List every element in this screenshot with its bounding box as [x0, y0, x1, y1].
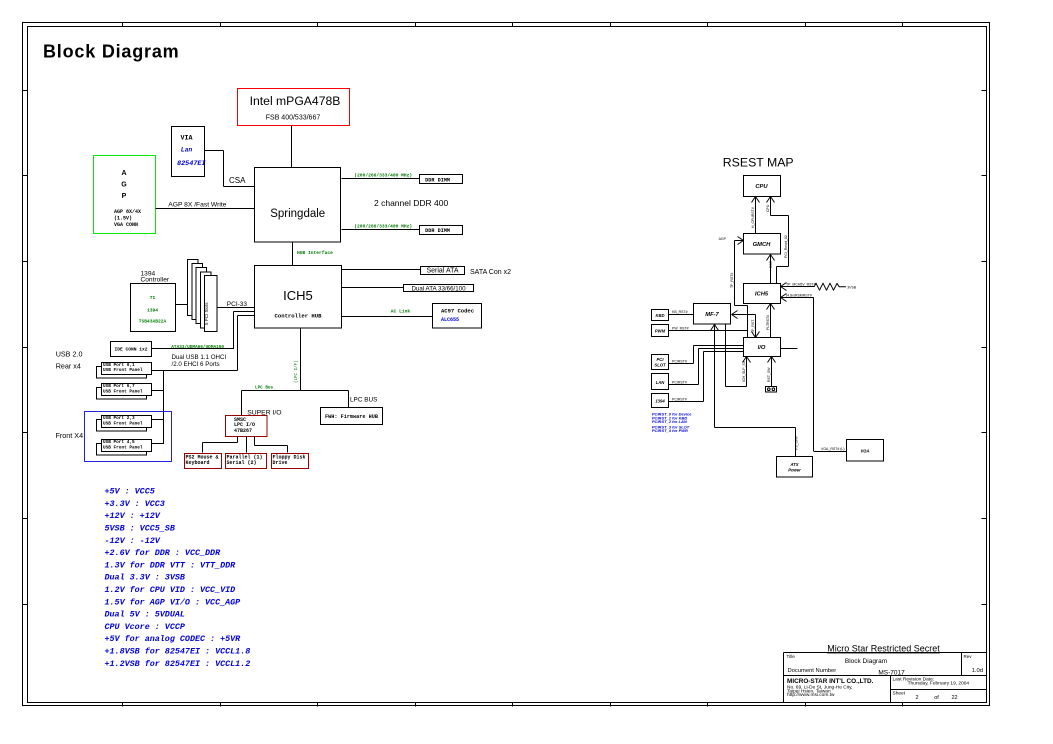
svg-text:Document Number: Document Number	[788, 668, 837, 674]
svg-text:RST: RST	[769, 260, 773, 268]
svg-text:PW_RST#: PW_RST#	[672, 327, 689, 331]
svg-text:(200/266/333/400 MHz): (200/266/333/400 MHz)	[354, 173, 412, 179]
svg-text:Rear x4: Rear x4	[56, 361, 81, 370]
svg-text:ATX: ATX	[789, 462, 798, 467]
svg-text:CPU: CPU	[766, 204, 770, 212]
svg-text:PCI-33: PCI-33	[227, 301, 248, 308]
svg-text:5VSB : VCC5_SB: 5VSB : VCC5_SB	[105, 524, 175, 534]
svg-text:22: 22	[951, 695, 957, 701]
svg-text:Sheet: Sheet	[893, 691, 906, 697]
svg-text:Intel mPGA478B: Intel mPGA478B	[250, 94, 341, 108]
svg-text:FWH: Firmware HUB: FWH: Firmware HUB	[325, 414, 378, 420]
svg-text:+1.2VSB for 82547EI : VCCL1.2: +1.2VSB for 82547EI : VCCL1.2	[105, 659, 251, 669]
svg-text:CSA: CSA	[229, 176, 246, 185]
svg-text:Dual 3.3V : 3VSB: Dual 3.3V : 3VSB	[105, 573, 185, 583]
svg-text:(200/266/333/400 MHz): (200/266/333/400 MHz)	[354, 223, 412, 229]
svg-text:Serial ATA: Serial ATA	[426, 268, 458, 275]
svg-text:of: of	[934, 695, 939, 701]
svg-text:SUPER I/O: SUPER I/O	[247, 409, 281, 416]
svg-text:SLOT: SLOT	[654, 363, 666, 368]
svg-text:Thursday, February 19, 2004: Thursday, February 19, 2004	[908, 680, 970, 686]
svg-text:TP_RST#: TP_RST#	[730, 273, 734, 288]
svg-text:PCI_Reset_82: PCI_Reset_82	[784, 235, 788, 258]
svg-text:PCI: PCI	[657, 357, 665, 362]
svg-text:Controller HUB: Controller HUB	[275, 312, 323, 319]
svg-text:+3.3V : VCC3: +3.3V : VCC3	[105, 499, 165, 509]
svg-text:PCIRST#: PCIRST#	[672, 397, 687, 401]
svg-text:VGA_RST# (L): VGA_RST# (L)	[821, 447, 845, 451]
svg-text:PCIRST#: PCIRST#	[672, 381, 687, 385]
svg-text:2 channel DDR 400: 2 channel DDR 400	[374, 198, 448, 208]
svg-text:KB_RST#: KB_RST#	[672, 310, 688, 314]
svg-text:1.0d: 1.0d	[972, 668, 983, 674]
svg-text:PCIRST_4 for PWR: PCIRST_4 for PWR	[652, 428, 688, 433]
svg-text:IDE CONN 1x2: IDE CONN 1x2	[114, 347, 147, 353]
svg-text:PWM: PWM	[655, 329, 666, 334]
svg-text:(4.8v)RSMRST#: (4.8v)RSMRST#	[786, 294, 812, 298]
svg-text:Block Diagram: Block Diagram	[43, 42, 179, 62]
svg-text:1394: 1394	[147, 308, 158, 314]
svg-text:TP_MCH5V_RST#: TP_MCH5V_RST#	[786, 283, 816, 287]
svg-text:Keyboard: Keyboard	[186, 460, 210, 466]
svg-text:TP_RST: TP_RST	[751, 319, 755, 333]
svg-text:DDR DIMM: DDR DIMM	[425, 178, 450, 184]
svg-text:VGA: VGA	[860, 449, 869, 454]
svg-text:(1.5V): (1.5V)	[114, 216, 132, 222]
svg-text:USB 2.0: USB 2.0	[56, 350, 83, 359]
svg-text:ALC655: ALC655	[441, 317, 459, 323]
svg-text:Block Diagram: Block Diagram	[845, 658, 887, 665]
svg-text:RSEST MAP: RSEST MAP	[723, 155, 794, 169]
svg-text:(LPC I/F): (LPC I/F)	[294, 360, 299, 383]
svg-text:CPU Vcore : VCCP: CPU Vcore : VCCP	[105, 622, 186, 632]
svg-text:Serial (2): Serial (2)	[227, 460, 257, 466]
svg-text:3VSB: 3VSB	[847, 286, 857, 290]
svg-text:AC Link: AC Link	[391, 309, 411, 315]
svg-text:MS-7017: MS-7017	[878, 670, 905, 677]
svg-text:5 PCI Slots: 5 PCI Slots	[204, 302, 209, 325]
svg-text:Springdale: Springdale	[270, 208, 325, 220]
svg-text:1394: 1394	[655, 399, 665, 404]
svg-text:ICH5: ICH5	[755, 292, 769, 298]
svg-text:1.5V for AGP VI/O : VCC_AGP: 1.5V for AGP VI/O : VCC_AGP	[105, 597, 242, 607]
svg-text:Dual 5V : 5VDUAL: Dual 5V : 5VDUAL	[105, 610, 185, 620]
svg-text:ATA33/UDMA66/UDMA100: ATA33/UDMA66/UDMA100	[171, 345, 224, 350]
svg-text:USB Port 6,7: USB Port 6,7	[103, 384, 135, 389]
svg-text:RST_SW: RST_SW	[767, 367, 771, 382]
svg-text:1.3V for DDR VTT : VTT_DDR: 1.3V for DDR VTT : VTT_DDR	[105, 560, 237, 570]
svg-text:Power: Power	[788, 468, 801, 473]
svg-text:Rev: Rev	[964, 654, 973, 659]
svg-text:ICH_SLP_S3: ICH_SLP_S3	[742, 361, 746, 382]
svg-text:1.2V for CPU VID : VCC_VID: 1.2V for CPU VID : VCC_VID	[105, 585, 236, 595]
svg-text:A: A	[121, 170, 126, 177]
svg-text:-12V : -12V: -12V : -12V	[105, 536, 161, 546]
svg-text:47B267: 47B267	[234, 428, 252, 434]
svg-text:USB Front Panel: USB Front Panel	[103, 390, 143, 395]
svg-text:MF-7: MF-7	[705, 312, 719, 318]
svg-text:HUB Interface: HUB Interface	[297, 250, 333, 256]
svg-text:Dual USB 1.1 OHCI: Dual USB 1.1 OHCI	[172, 354, 227, 361]
svg-text:VIA: VIA	[180, 134, 193, 142]
svg-text:/2.0 EHCI 6 Ports: /2.0 EHCI 6 Ports	[172, 361, 220, 368]
svg-text:G: G	[121, 181, 127, 188]
svg-text:AGP: AGP	[719, 237, 727, 241]
svg-text:H_CPURST#: H_CPURST#	[751, 207, 755, 228]
svg-text:Controller: Controller	[141, 277, 170, 284]
svg-text:MICRO-STAR INT'L CO.,LTD.: MICRO-STAR INT'L CO.,LTD.	[787, 678, 874, 685]
svg-text:AGP 8X/4X: AGP 8X/4X	[114, 209, 141, 215]
svg-text:http://www.msi.com.tw: http://www.msi.com.tw	[787, 692, 835, 698]
svg-text:LAN: LAN	[656, 380, 666, 385]
svg-text:Front X4: Front X4	[56, 431, 84, 440]
svg-text:ICH5: ICH5	[283, 288, 313, 303]
svg-text:USB Front Panel: USB Front Panel	[103, 368, 143, 373]
svg-text:TSB43AB22A: TSB43AB22A	[139, 319, 167, 325]
svg-text:+2.6V for DDR : VCC_DDR: +2.6V for DDR : VCC_DDR	[105, 548, 222, 558]
svg-text:USB Front Panel: USB Front Panel	[103, 422, 143, 427]
svg-text:LPC Bus: LPC Bus	[255, 386, 273, 391]
svg-text:AGP 8X /Fast Write: AGP 8X /Fast Write	[168, 201, 226, 208]
svg-text:Dual ATA 33/66/100: Dual ATA 33/66/100	[411, 286, 466, 293]
svg-text:Title: Title	[787, 654, 796, 659]
svg-text:+5V for analog CODEC : +5VR: +5V for analog CODEC : +5VR	[105, 634, 242, 644]
svg-text:VGA CONN: VGA CONN	[114, 222, 138, 228]
svg-text:+5V : VCC5: +5V : VCC5	[105, 487, 155, 497]
svg-text:P: P	[122, 193, 127, 200]
svg-text:PCIRST#: PCIRST#	[672, 359, 687, 363]
svg-text:TI: TI	[150, 295, 156, 301]
svg-text:USB Port 4,5: USB Port 4,5	[103, 440, 135, 445]
svg-text:+1.8VSB for 82547EI : VCCL1.8: +1.8VSB for 82547EI : VCCL1.8	[105, 647, 251, 657]
svg-text:PS_ON#: PS_ON#	[795, 436, 799, 450]
svg-text:+12V : +12V: +12V : +12V	[105, 511, 161, 521]
svg-text:FSB 400/533/667: FSB 400/533/667	[266, 114, 321, 121]
svg-text:USB Port 0,1: USB Port 0,1	[103, 363, 135, 368]
svg-text:I/O: I/O	[758, 345, 766, 351]
svg-text:82547EI: 82547EI	[177, 160, 206, 168]
svg-text:USB Port 2,3: USB Port 2,3	[103, 416, 135, 421]
svg-text:DDR DIMM: DDR DIMM	[425, 228, 450, 234]
svg-text:PLTRST#: PLTRST#	[766, 315, 770, 330]
svg-text:KBD: KBD	[655, 313, 664, 318]
svg-text:CPU: CPU	[755, 184, 768, 190]
svg-text:LPC BUS: LPC BUS	[350, 397, 377, 404]
svg-text:AC97 Codec: AC97 Codec	[441, 308, 474, 315]
svg-text:Drive: Drive	[273, 460, 288, 466]
svg-text:Micro Star Restricted Secret: Micro Star Restricted Secret	[827, 644, 940, 654]
svg-text:GMCH: GMCH	[753, 242, 772, 248]
svg-text:Lan: Lan	[181, 146, 193, 153]
svg-text:SATA Con x2: SATA Con x2	[470, 269, 511, 276]
svg-text:USB Front Panel: USB Front Panel	[103, 446, 143, 451]
svg-text:2: 2	[915, 695, 918, 701]
